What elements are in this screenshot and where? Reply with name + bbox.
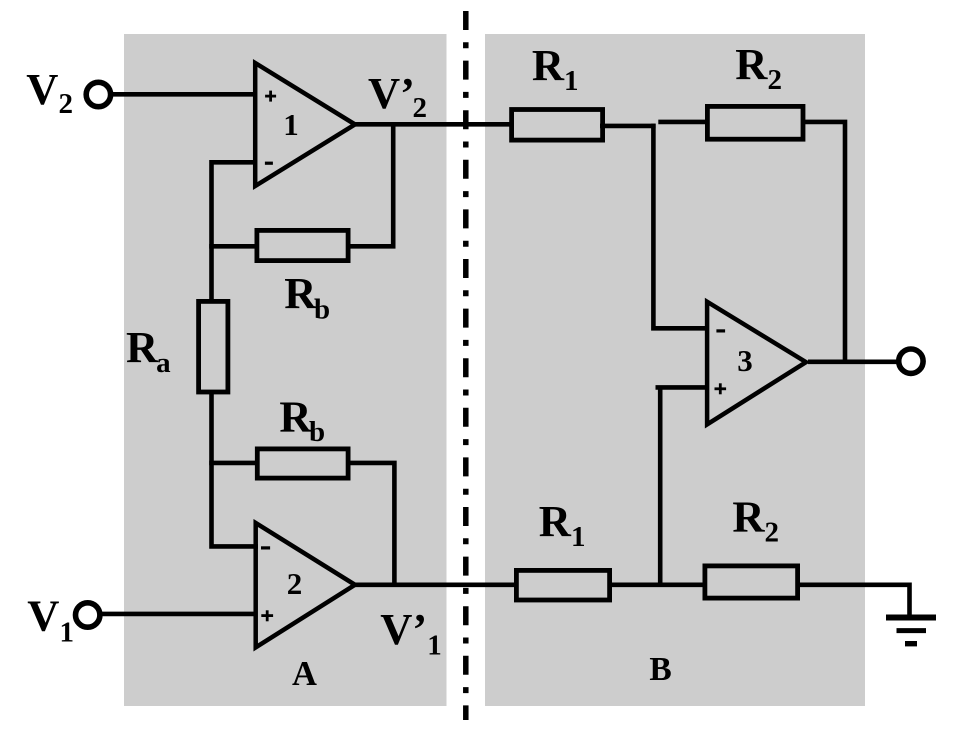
wire Ra bottom to op-amp 2 inverting input: [209, 390, 258, 549]
resistor R2 top: [707, 106, 803, 139]
divider dash-dot line: [463, 11, 469, 720]
wire R1 top to vertical node: [600, 124, 656, 129]
svg-text:A: A: [292, 655, 317, 693]
resistor Rb top: [257, 230, 348, 260]
resistor R1 top: [512, 110, 603, 141]
wire R1 bottom to R2 bottom: [610, 582, 704, 587]
svg-text:3: 3: [737, 343, 753, 378]
resistor Ra: [199, 301, 228, 392]
wire Rb top left lead: [209, 244, 258, 249]
terminal output: [899, 349, 923, 373]
svg-text:1: 1: [283, 107, 299, 142]
wire R2 top right feedback to op3 output: [801, 122, 845, 362]
wire op-amp 2 output to R1 bottom: [353, 582, 516, 587]
op-amp U1: [255, 63, 355, 186]
op-amp U3 plus input sign: [715, 383, 727, 394]
wire R2 bottom to ground: [798, 585, 910, 615]
wire V1 to op-amp 2 + input: [100, 612, 257, 617]
wire op-amp 1 inverting input to Ra: [212, 162, 258, 301]
svg-text:V1: V1: [27, 590, 74, 648]
op-amp U1 minus input sign: [265, 162, 273, 165]
wire op-amp 3 output to terminal: [808, 359, 899, 364]
terminal V1: [76, 603, 100, 627]
wire V2 to op-amp 1 + input: [110, 92, 257, 97]
op-amp U1 plus input sign: [265, 91, 276, 102]
block B background region: [485, 34, 865, 706]
svg-text:B: B: [649, 651, 671, 688]
op-amp U2 plus input sign: [261, 610, 273, 621]
wire op-amp 3 plus input vertical: [656, 385, 710, 586]
ground: [886, 618, 936, 644]
wire Rb bottom right lead to op2 output: [348, 463, 394, 587]
wire op-amp 1 output to R1 top: [353, 122, 511, 127]
op-amp U3 minus input sign: [716, 329, 725, 332]
wire to R2 top left lead: [658, 120, 707, 125]
wire feedback vertical from op1 output: [391, 122, 396, 246]
op-amp U2: [256, 523, 355, 647]
op-amp U2 minus input sign: [261, 546, 270, 549]
resistor R2 bottom: [705, 566, 798, 598]
op-amp U3: [707, 302, 806, 425]
svg-text:2: 2: [287, 566, 303, 601]
wire vertical to op-amp 3 inverting input: [651, 124, 709, 329]
terminal V2: [86, 82, 110, 106]
resistor Rb bottom: [257, 449, 348, 478]
resistor R1 bottom: [516, 570, 609, 600]
svg-text:V2: V2: [26, 64, 73, 120]
block A background region: [124, 34, 447, 706]
wire Rb bottom left lead: [209, 461, 258, 466]
wire Rb top right lead: [348, 244, 396, 249]
